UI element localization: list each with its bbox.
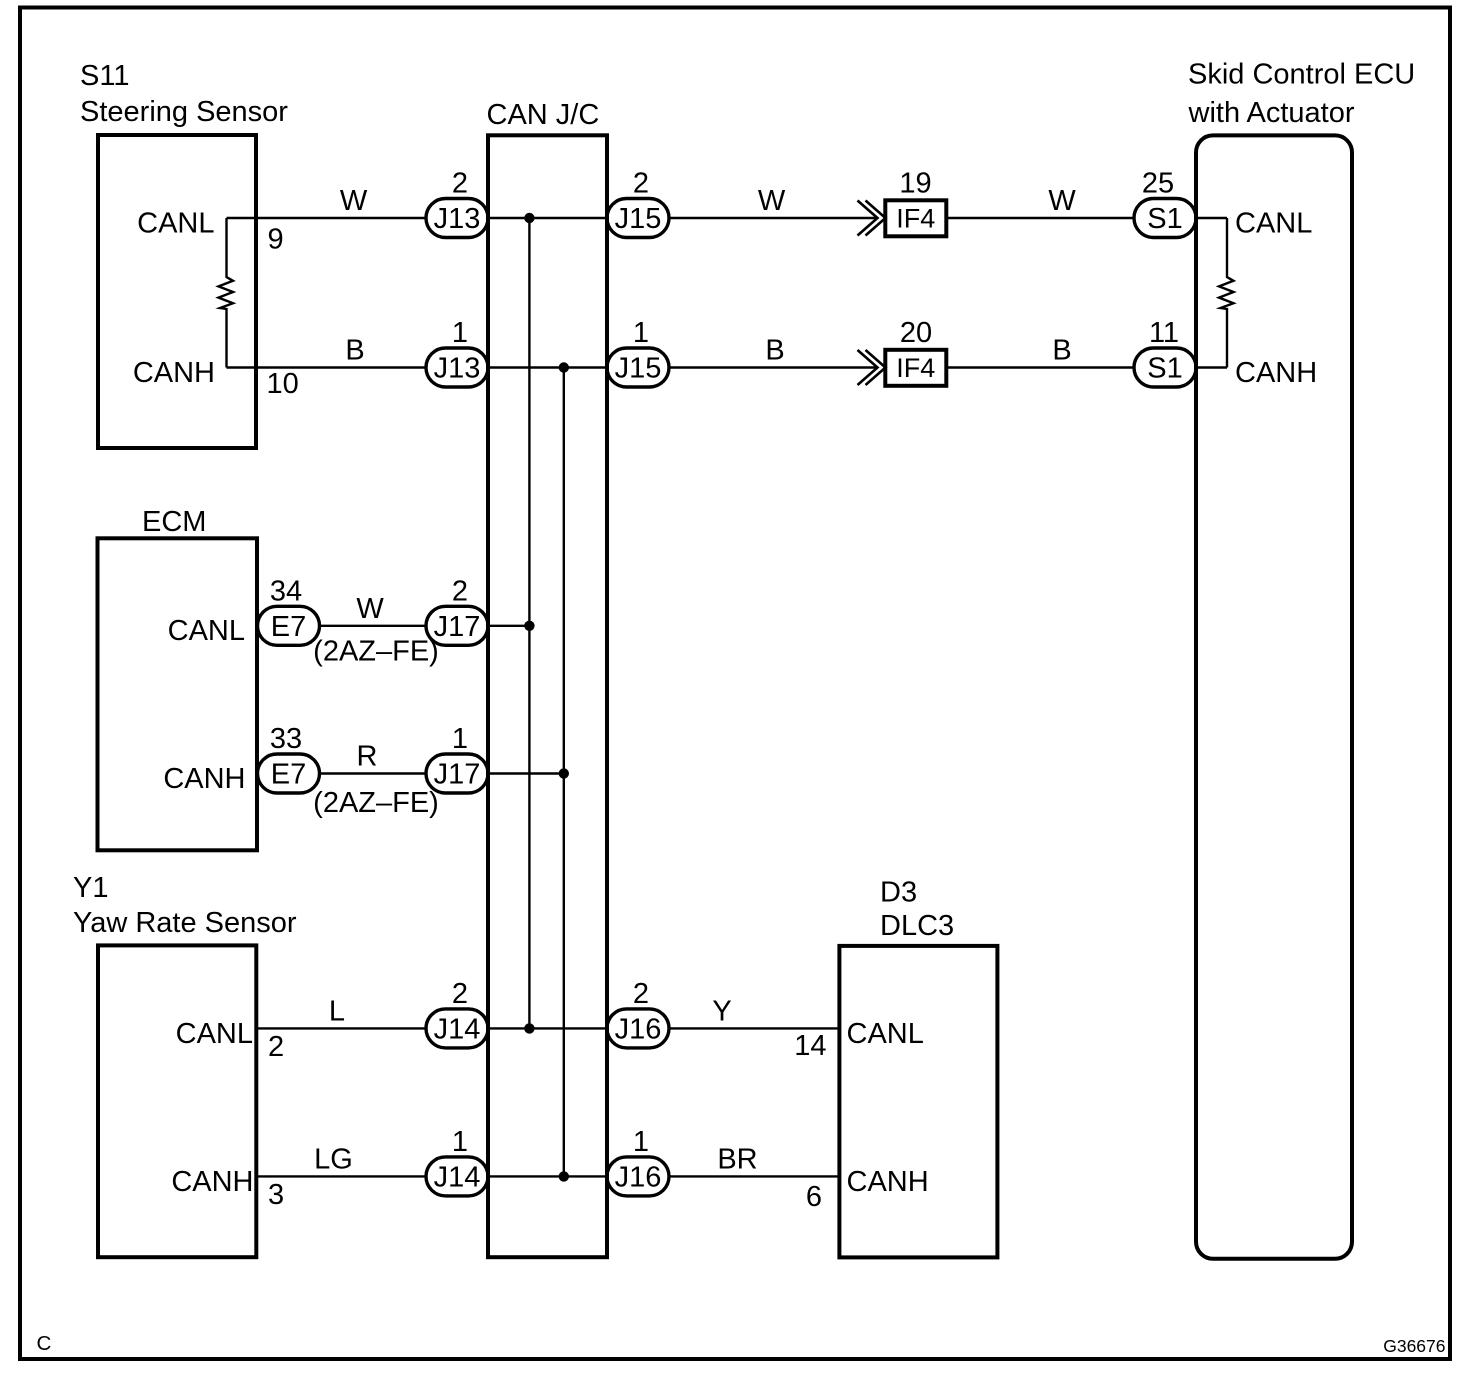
svg-text:CANH: CANH [163,763,245,795]
wire Yaw CANH row6 [256,1175,839,1177]
wire CAN bus line 2 [563,368,565,1177]
svg-text:J13: J13 [434,203,481,235]
svg-text:G36676: G36676 [1383,1336,1445,1356]
svg-text:2: 2 [452,168,468,200]
svg-text:B: B [345,335,364,367]
svg-text:Y1: Y1 [73,872,108,904]
svg-text:9: 9 [268,224,284,256]
connector S1 pin25 [1134,199,1196,238]
wire ECM CANL row3 [257,625,529,627]
svg-text:CANL: CANL [847,1018,924,1050]
wire ECM CANH row4 [257,772,564,774]
svg-text:DLC3: DLC3 [880,910,954,942]
svg-text:D3: D3 [880,877,917,909]
svg-text:C: C [37,1332,52,1355]
svg-text:CANL: CANL [176,1018,253,1050]
svg-text:B: B [1052,335,1071,367]
connector J17 pin1 [426,754,488,793]
junction dot row4 bus2 [559,768,569,778]
svg-text:J14: J14 [434,1162,481,1194]
svg-text:with Actuator: with Actuator [1188,97,1355,129]
svg-text:Steering Sensor: Steering Sensor [80,96,288,128]
wire CAN bus line 1 [528,218,530,1028]
svg-text:S1: S1 [1147,203,1182,235]
svg-text:J16: J16 [615,1162,662,1194]
svg-text:Yaw Rate Sensor: Yaw Rate Sensor [73,907,297,939]
svg-text:J15: J15 [615,353,662,385]
box S11 Steering Sensor [98,135,256,448]
svg-text:W: W [356,593,384,625]
svg-text:J14: J14 [434,1014,481,1046]
chevron marks row1 [858,201,886,236]
svg-text:CANH: CANH [171,1166,253,1198]
svg-text:R: R [357,741,378,773]
connector J17 pin2 [426,606,488,645]
box Skid Control ECU with Actuator [1196,135,1352,1258]
svg-text:IF4: IF4 [896,353,935,383]
connector J13 pin1 [426,348,488,387]
box D3 DLC3 [839,946,997,1258]
svg-text:IF4: IF4 [896,204,935,234]
svg-text:CANL: CANL [137,207,214,239]
connector J13 pin2 [426,199,488,238]
junction dot row5 bus1 [524,1023,534,1033]
svg-text:J15: J15 [615,203,662,235]
svg-text:S1: S1 [1147,353,1182,385]
svg-text:14: 14 [794,1030,826,1062]
connector J14 pin2 [426,1009,488,1048]
svg-text:J17: J17 [434,611,481,643]
svg-text:CANH: CANH [847,1166,929,1198]
svg-text:E7: E7 [271,611,306,643]
chevron marks row2 [858,350,886,385]
resistor in Skid Control ECU (terminating resistor) [1219,218,1234,368]
svg-text:L: L [329,995,345,1027]
junction dot row3 bus1 [524,621,534,631]
connector IF4 pin20 [885,350,946,386]
svg-text:2: 2 [452,575,468,607]
wire CANL row1 IF4 to Skid stub [948,217,1227,219]
wire CANH row2 IF4 to Skid stub [948,366,1227,368]
connector J16 pin1 [607,1157,669,1196]
svg-text:CANL: CANL [1235,207,1312,239]
junction dot row2 bus2 [559,362,569,372]
svg-text:33: 33 [270,723,302,755]
svg-text:ECM: ECM [142,506,206,538]
svg-text:(2AZ–FE): (2AZ–FE) [313,636,439,668]
svg-text:2: 2 [268,1031,284,1063]
svg-text:25: 25 [1142,168,1174,200]
CONNECTOR PILLS [258,199,1197,1196]
svg-text:W: W [340,185,368,217]
svg-text:34: 34 [270,575,302,607]
svg-text:LG: LG [314,1143,353,1175]
box CAN J/C junction connector [488,135,607,1257]
svg-text:10: 10 [267,368,299,400]
svg-text:19: 19 [899,168,931,200]
resistor in S11 (terminating resistor) [219,218,234,368]
JUNCTION DOTS [524,213,569,1182]
connector IF4 pin19 [885,200,946,236]
svg-text:2: 2 [633,168,649,200]
svg-text:1: 1 [452,317,468,349]
connector E7 pin34 [258,606,320,645]
svg-text:3: 3 [268,1179,284,1211]
svg-text:(2AZ–FE): (2AZ–FE) [313,787,439,819]
svg-text:11: 11 [1149,317,1179,349]
CHEVRONS (shielded wire marks) [858,201,886,386]
svg-text:Skid Control ECU: Skid Control ECU [1188,59,1415,91]
connector E7 pin33 [258,754,320,793]
connector S1 pin11 [1134,348,1196,387]
svg-text:J16: J16 [615,1014,662,1046]
svg-text:B: B [765,335,784,367]
svg-text:E7: E7 [271,759,306,791]
svg-text:1: 1 [452,723,468,755]
svg-text:Y: Y [712,995,731,1027]
connector J15 pin1 [607,348,669,387]
connector J16 pin2 [607,1009,669,1048]
junction dot row6 bus2 [559,1171,569,1181]
svg-text:1: 1 [633,1126,649,1158]
svg-text:J17: J17 [434,759,481,791]
box Y1 Yaw Rate Sensor [98,945,256,1257]
svg-text:S11: S11 [80,60,129,92]
svg-text:6: 6 [806,1181,822,1213]
svg-text:2: 2 [633,978,649,1010]
svg-text:CANH: CANH [1235,357,1317,389]
svg-text:CANL: CANL [168,615,245,647]
wire CANH row2 S11 to IF4 [227,366,877,368]
connector J15 pin2 [607,199,669,238]
wire CANL row1 S11 to IF4 [227,217,877,219]
svg-text:2: 2 [452,978,468,1010]
svg-text:W: W [1048,185,1076,217]
svg-text:1: 1 [452,1126,468,1158]
wire Yaw CANL row5 [256,1027,839,1029]
svg-text:W: W [758,185,786,217]
svg-text:BR: BR [717,1143,757,1175]
svg-text:CAN J/C: CAN J/C [487,99,600,131]
svg-text:20: 20 [900,317,932,349]
box ECM [98,538,258,850]
connector J14 pin1 [426,1157,488,1196]
junction dot row1 bus1 [524,213,534,223]
svg-text:1: 1 [633,317,649,349]
svg-text:J13: J13 [434,353,481,385]
svg-text:CANH: CANH [133,357,215,389]
